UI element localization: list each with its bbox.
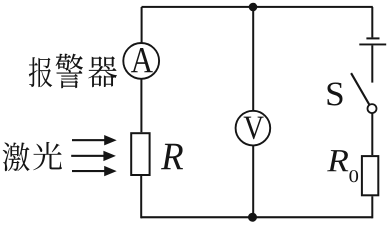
- wire voltmeter to bottom: [252, 146, 254, 219]
- label text 报 (alarm 1): [29, 57, 52, 87]
- label text 激 (laser 1): [3, 142, 30, 171]
- resistor R0 value label subscript 0: [349, 170, 358, 182]
- wire switch to resistor R0: [371, 113, 373, 155]
- wire resistor R to bottom: [140, 176, 142, 218]
- wire bottom: [141, 216, 373, 218]
- wire resistor R0 to bottom: [371, 196, 373, 218]
- switch label S: [327, 82, 342, 105]
- laser arrow 1 shaft: [72, 139, 106, 141]
- resistor R0 value label R: [327, 150, 348, 171]
- ammeter label A: [131, 48, 153, 72]
- resistor R0 box: [362, 156, 378, 195]
- label text 警 (alarm 2): [56, 54, 83, 89]
- label text 光 (laser 2): [33, 142, 62, 170]
- laser arrow 2 shaft: [71, 155, 105, 157]
- voltmeter U2: circle: [236, 111, 271, 146]
- battery cell: short thick plate (negative): [366, 37, 379, 39]
- laser arrow 1 head: [104, 135, 117, 145]
- wire left-top (top wire down to ammeter): [141, 7, 143, 43]
- wire battery to switch fixed contact: [371, 45, 373, 82]
- switch S pivot circle: [368, 104, 377, 113]
- laser arrow 3 shaft: [72, 170, 106, 172]
- wire ammeter to resistor R: [140, 79, 142, 132]
- voltmeter label V: [244, 117, 264, 140]
- wire right-top (top wire down to battery): [371, 7, 373, 37]
- node junction top: [249, 3, 258, 12]
- switch S blade (open): [350, 73, 370, 106]
- battery cell: long thin plate (positive): [359, 44, 386, 46]
- label text 器 (alarm 3): [88, 56, 117, 87]
- resistor R value label: [161, 144, 183, 170]
- wire top: [142, 6, 373, 8]
- ammeter U1: circle: [123, 43, 159, 79]
- laser arrow 2 head: [103, 151, 116, 161]
- laser arrow 3 head: [104, 166, 117, 176]
- wire middle branch top (to voltmeter): [252, 7, 254, 111]
- resistor R box: [131, 133, 149, 175]
- node junction bottom: [248, 213, 257, 222]
